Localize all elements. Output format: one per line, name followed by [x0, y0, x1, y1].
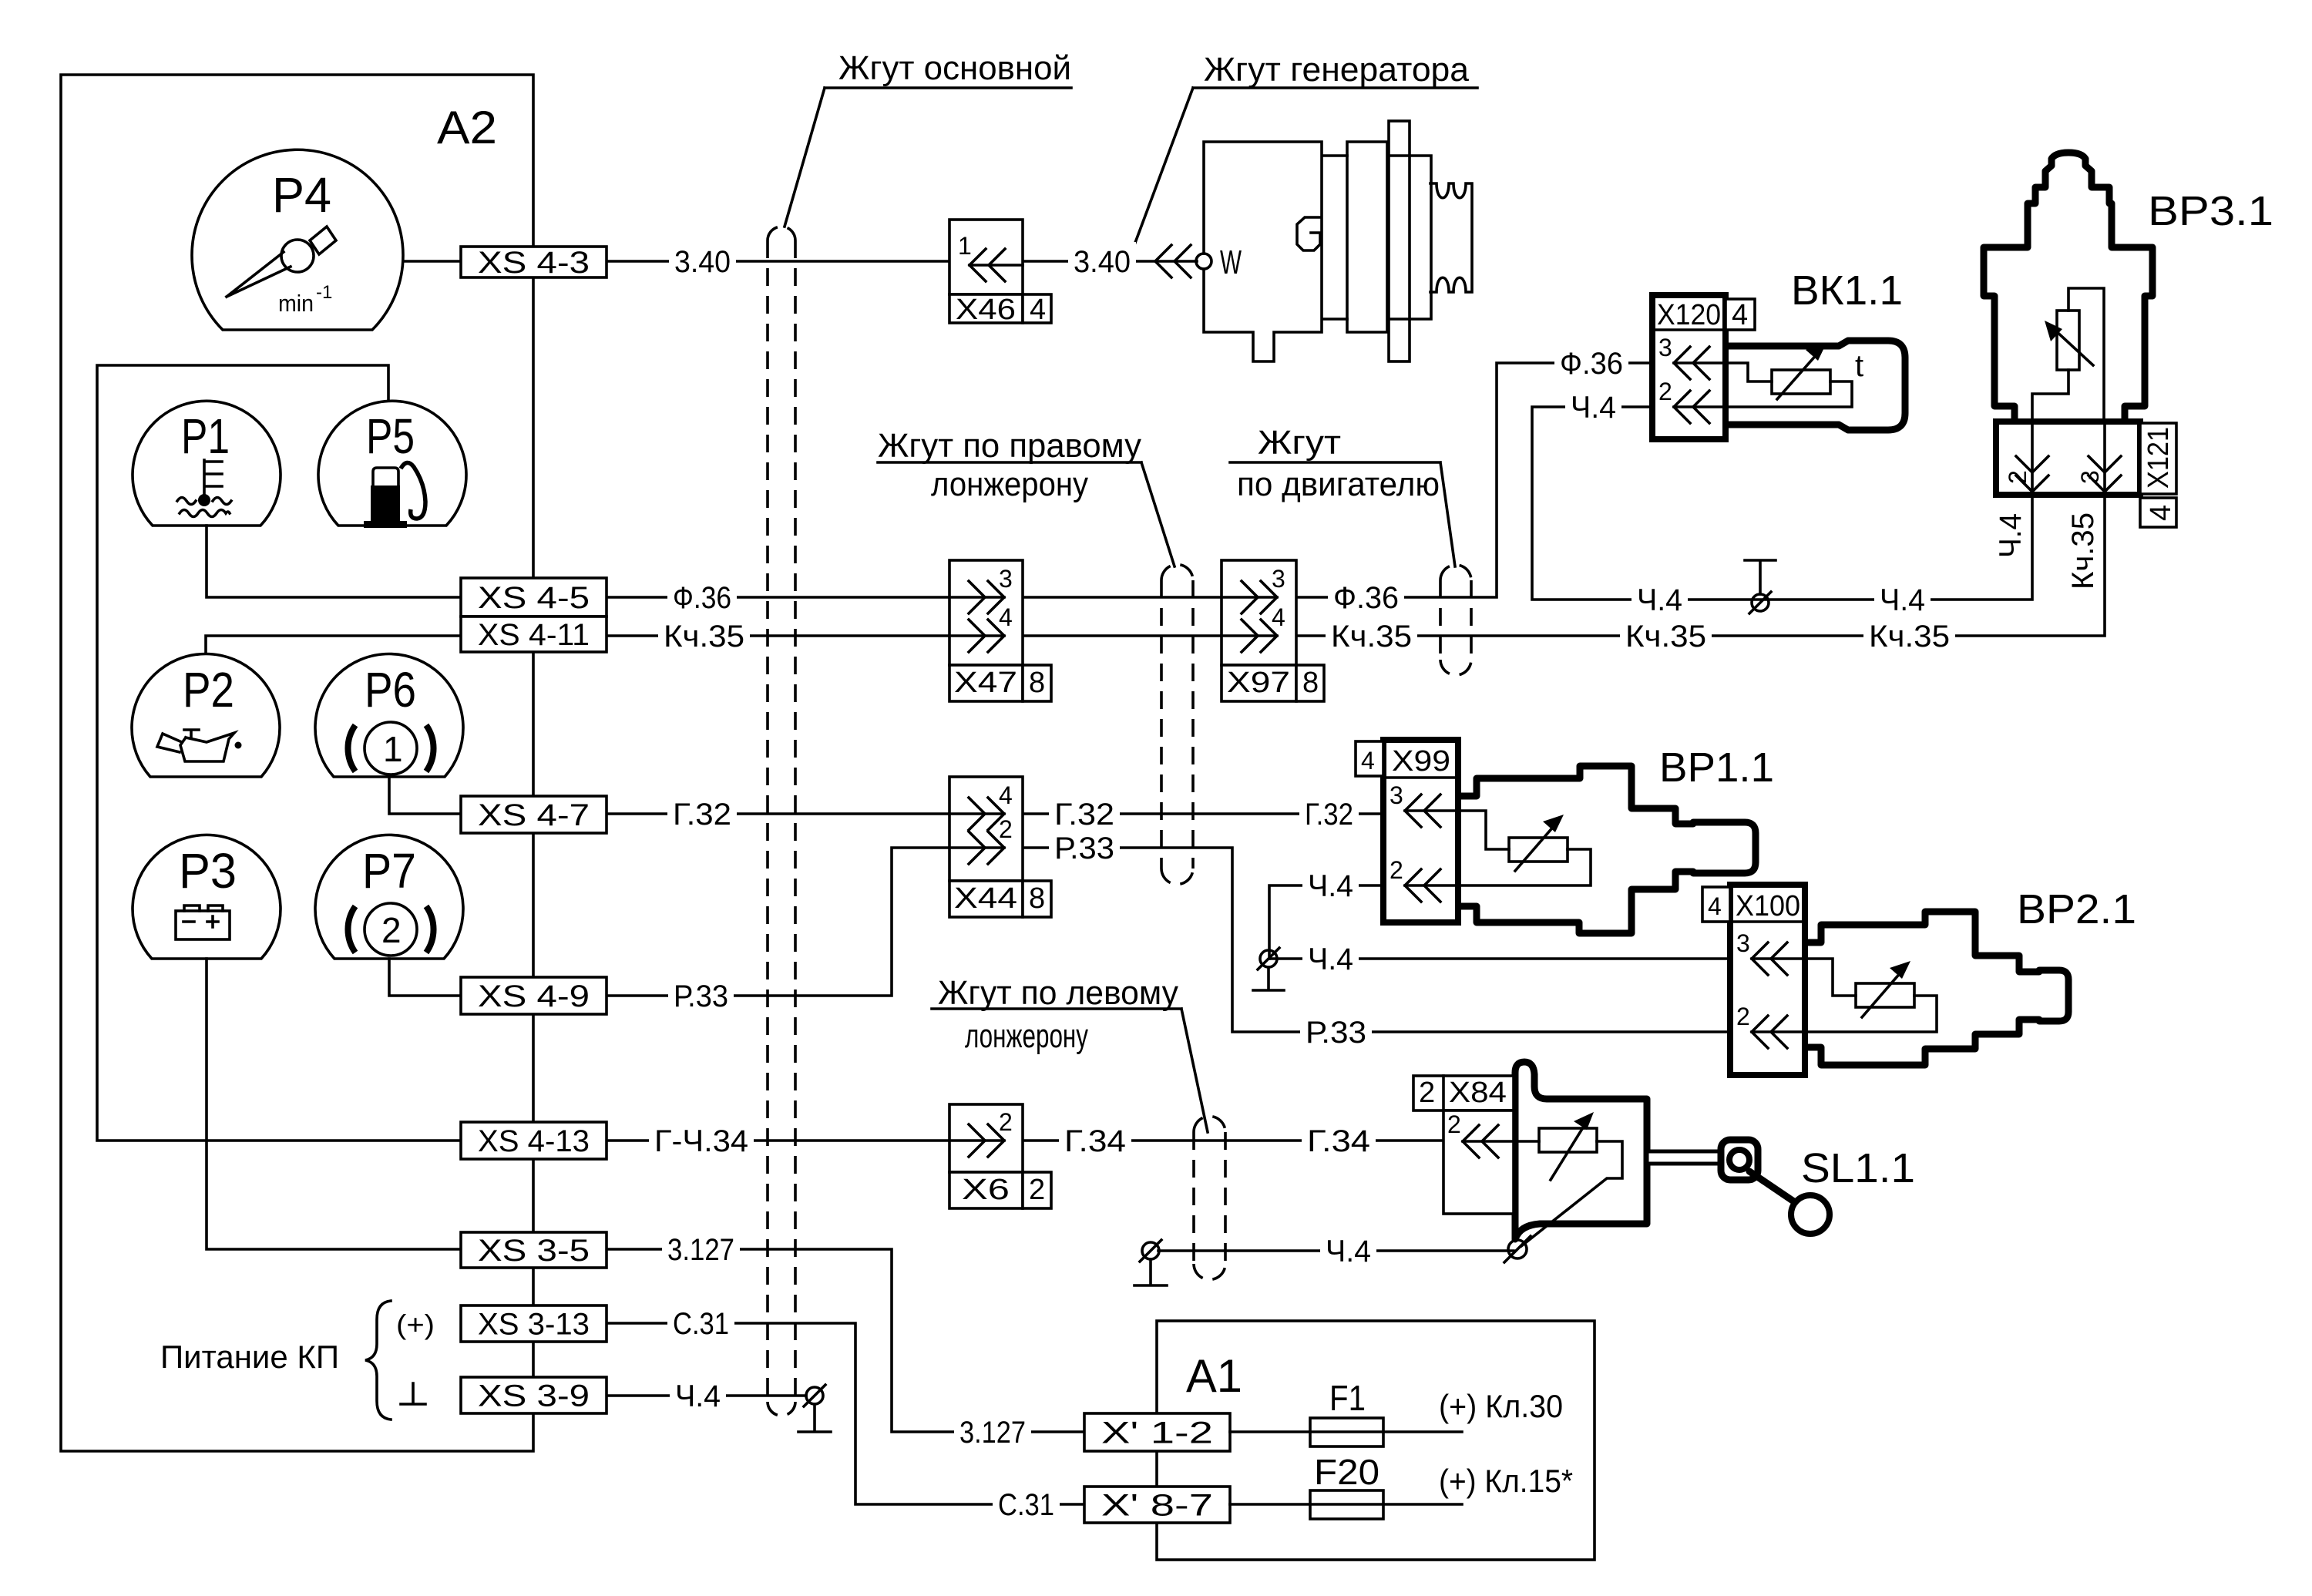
svg-text:Г.34: Г.34	[1307, 1124, 1370, 1158]
svg-text:С.31: С.31	[673, 1307, 729, 1341]
svg-text:(+) Кл.30: (+) Кл.30	[1439, 1388, 1563, 1424]
wire Kch.35 row	[607, 495, 2105, 636]
svg-text:XS 3-5: XS 3-5	[478, 1234, 590, 1268]
svg-text:Жгут: Жгут	[1258, 424, 1341, 462]
ground bolt+earth XS 3-9	[806, 1387, 823, 1404]
wire P7 to XS 4-9	[389, 959, 461, 996]
wire label G.32	[667, 795, 737, 833]
svg-text:2: 2	[999, 815, 1013, 843]
svg-text:Г.32: Г.32	[673, 798, 731, 832]
wire label 3.40 after X46	[1068, 242, 1136, 281]
wire P6 to XS 4-7	[389, 777, 461, 814]
BP3.1 sensor body	[1984, 153, 2152, 422]
svg-text:Кч.35: Кч.35	[2066, 512, 2100, 590]
svg-text:Р7: Р7	[362, 843, 416, 899]
P1 thermometer icon	[204, 460, 222, 496]
wire label Ch.4 to X100	[1302, 939, 1359, 978]
wire label Ch.4 engine right	[1874, 580, 1931, 619]
svg-text:Ф.36: Ф.36	[1333, 581, 1399, 615]
wire label F.36 after X47	[1328, 578, 1404, 617]
svg-text:ВК1.1: ВК1.1	[1791, 267, 1903, 314]
P5 fuel pump icon	[373, 468, 398, 486]
svg-text:4: 4	[1732, 299, 1748, 331]
svg-text:Х' 8-7: Х' 8-7	[1101, 1489, 1213, 1523]
BP1.1 sensor body	[1458, 766, 1756, 933]
wire bus from P5 to XS 4-13	[97, 365, 461, 1141]
connector X6	[949, 1104, 1023, 1172]
BP1.1 internal wiring	[1437, 811, 1591, 885]
gauge P2 oil pressure	[132, 654, 280, 777]
BP3.1 internal wiring	[2032, 288, 2104, 492]
harness capsule main (Zhgut osnovnoy)	[768, 240, 795, 1402]
SL1.1 pivot joint	[1721, 1140, 1758, 1180]
svg-text:3: 3	[1272, 565, 1285, 593]
svg-text:2: 2	[1658, 378, 1672, 405]
wire Ch.4 to X100 pin3	[1269, 957, 1730, 960]
svg-text:XS 4-5: XS 4-5	[478, 581, 590, 615]
svg-text:8: 8	[1302, 667, 1319, 699]
wire label G.32 to BP1.1	[1299, 795, 1359, 833]
connector XS 4-11	[461, 617, 607, 652]
fuse F20	[1310, 1490, 1383, 1519]
wire label R.33	[668, 976, 734, 1015]
connector X120	[1652, 295, 1726, 439]
svg-text:F1: F1	[1329, 1378, 1366, 1418]
svg-text:F20: F20	[1314, 1452, 1379, 1492]
generator bearing block	[1410, 156, 1431, 319]
svg-text:Г.32: Г.32	[1054, 798, 1114, 832]
gauge P6 brake 1	[315, 654, 463, 777]
svg-text:Х84: Х84	[1449, 1077, 1507, 1109]
wire G.32 row	[607, 812, 1383, 815]
svg-text:Жгут по правому: Жгут по правому	[878, 427, 1141, 465]
svg-text:3: 3	[2076, 470, 2104, 484]
wire label F.36 into X120	[1554, 344, 1628, 382]
X84 pin 2	[1463, 1140, 1514, 1143]
P7 brake icon	[365, 903, 417, 956]
generator mounting plate	[1389, 121, 1410, 361]
X46 pin 1	[969, 264, 1023, 267]
svg-text:(+) Кл.15*: (+) Кл.15*	[1439, 1463, 1573, 1499]
svg-text:XS 4-7: XS 4-7	[478, 798, 590, 832]
gauge P5 fuel level	[318, 401, 466, 526]
connector X100	[1730, 885, 1805, 1075]
wire Ch.4 row XS 3-9	[606, 1394, 806, 1397]
svg-text:2: 2	[1029, 1174, 1045, 1206]
ground terminal annotation	[401, 1383, 425, 1404]
wire S.31 row to X8-7	[606, 1323, 1084, 1504]
svg-text:2: 2	[1447, 1110, 1461, 1138]
connector X 8-7	[1084, 1487, 1230, 1523]
svg-text:Р2: Р2	[183, 662, 234, 717]
wire X8-7 to F20	[1230, 1503, 1462, 1506]
svg-text:Кч.35: Кч.35	[1625, 620, 1706, 654]
svg-text:Р1: Р1	[181, 408, 230, 464]
wire X1-2 to F1	[1230, 1430, 1462, 1433]
connector X99	[1383, 740, 1458, 922]
wire label G.34 after X6	[1059, 1121, 1131, 1160]
svg-text:XS 3-9: XS 3-9	[478, 1379, 590, 1413]
svg-text:4: 4	[1361, 747, 1375, 774]
wire label Kch.35 near BP3.1	[1863, 617, 1955, 655]
svg-text:Кч.35: Кч.35	[1331, 620, 1412, 654]
X44 pin 4	[949, 814, 1004, 848]
svg-text:3: 3	[1658, 334, 1672, 361]
X97 pin 3	[1222, 597, 1277, 636]
wire label S.31	[667, 1304, 734, 1342]
BP2.1 sensor body	[1805, 912, 2068, 1065]
connector X121	[1996, 422, 2140, 495]
svg-text:3: 3	[1736, 929, 1750, 957]
svg-text:Ч.4: Ч.4	[1637, 583, 1682, 617]
svg-text:Жгут основной: Жгут основной	[838, 49, 1071, 87]
BK1.1 variable resistor	[1772, 370, 1830, 394]
svg-text:SL1.1: SL1.1	[1801, 1145, 1915, 1191]
svg-text:Ч.4: Ч.4	[1994, 513, 2028, 558]
X44 pin 2	[969, 832, 1004, 864]
generator G body	[1204, 142, 1347, 361]
X47 pin 4	[969, 620, 1004, 652]
wire Ch.4 from BK1.1 to ground and BP3.1	[1532, 407, 2032, 600]
svg-text:ВР2.1: ВР2.1	[2017, 886, 2136, 932]
svg-text:лонжерону: лонжерону	[931, 465, 1088, 503]
wire P1 to XS 4-5	[207, 526, 461, 597]
BP2.1 variable resistor	[1856, 983, 1914, 1007]
connector XS 4-7	[461, 796, 607, 833]
SL1.1 internal wiring	[1500, 1141, 1622, 1246]
generator terminal W	[1196, 254, 1211, 269]
gauge P1 coolant temp	[133, 401, 281, 526]
svg-text:Кч.35: Кч.35	[664, 620, 744, 654]
svg-text:ВР1.1: ВР1.1	[1659, 744, 1774, 791]
wire label G.32 after X44	[1049, 795, 1120, 833]
svg-text:3.40: 3.40	[1074, 245, 1131, 279]
svg-text:W: W	[1220, 244, 1242, 281]
svg-text:Х121: Х121	[2142, 427, 2175, 489]
svg-text:1: 1	[958, 232, 972, 260]
svg-text:Х120: Х120	[1657, 299, 1721, 331]
wire label G.34 to X84	[1302, 1121, 1376, 1160]
svg-text:Ф.36: Ф.36	[1560, 347, 1623, 381]
gauge P3 battery	[133, 835, 281, 959]
connector X47	[949, 560, 1023, 665]
svg-text:Х6: Х6	[962, 1174, 1010, 1206]
connector XS 4-5	[461, 578, 607, 617]
svg-text:Х46: Х46	[956, 294, 1016, 326]
svg-text:Р5: Р5	[366, 408, 415, 464]
svg-text:Р4: Р4	[272, 167, 331, 223]
svg-text:XS 4-13: XS 4-13	[478, 1124, 590, 1158]
svg-text:Р6: Р6	[365, 662, 416, 717]
wire label 3.40	[669, 242, 736, 281]
wire label Ch.4 to BK1.1	[1565, 388, 1621, 426]
connector XS 4-3	[461, 247, 607, 277]
ground bolt on SL1.1 body corner	[1508, 1240, 1527, 1258]
ground bolt+earth left of X100	[1260, 950, 1277, 967]
connector XS 4-9	[461, 977, 607, 1014]
BP2.1 internal wiring	[1783, 959, 1937, 1032]
svg-text:4: 4	[2145, 505, 2177, 521]
ground bolt+earth for SL1.1 wire	[1142, 1242, 1159, 1259]
svg-text:Х' 1-2: Х' 1-2	[1101, 1416, 1213, 1450]
svg-text:-1: -1	[316, 282, 332, 303]
X100 pin 3	[1752, 959, 1805, 1032]
wire R.33 row	[607, 848, 1730, 1032]
wire label R.33 to X100	[1300, 1013, 1372, 1051]
svg-text:4: 4	[1030, 294, 1046, 326]
svg-text:3.127: 3.127	[667, 1233, 734, 1267]
svg-text:3.40: 3.40	[674, 245, 731, 279]
harness capsule left longeron	[1194, 1132, 1225, 1264]
wire label 3.127	[662, 1230, 740, 1268]
connector XS 3-13	[461, 1305, 607, 1342]
svg-text:Ч.4: Ч.4	[1880, 583, 1925, 617]
connector X46	[949, 220, 1023, 294]
harness capsule engine	[1440, 580, 1471, 660]
svg-text:Р.33: Р.33	[1306, 1016, 1366, 1050]
svg-text:Р3: Р3	[179, 843, 237, 899]
wire label Ch.4 engine left	[1632, 580, 1688, 619]
svg-text:2: 2	[1419, 1077, 1435, 1109]
svg-text:8: 8	[1029, 882, 1045, 915]
harness capsule right longeron	[1161, 580, 1193, 869]
ground bolt at Ch.4 BK1.1 (engine)	[1752, 594, 1769, 611]
connector X 1-2	[1084, 1413, 1230, 1451]
connector XS 4-13	[461, 1122, 607, 1159]
svg-text:А2: А2	[437, 102, 497, 153]
fuse box A1	[1157, 1321, 1595, 1560]
wire P4 to XS 4-3	[403, 260, 461, 263]
svg-text:Г.34: Г.34	[1064, 1124, 1126, 1158]
BK1.1 internal wiring	[1726, 363, 1852, 407]
wire Ch.4 SL1.1 ground row	[1158, 1249, 1514, 1252]
P6 brake icon	[365, 722, 417, 774]
wire G-Ch.34 row to X6 and X84	[607, 1139, 1463, 1142]
wire label 3.127 at X1-2	[954, 1413, 1031, 1451]
connector X44	[949, 777, 1023, 881]
svg-text:Р.33: Р.33	[674, 979, 728, 1013]
wire label F.36	[667, 578, 737, 617]
X120 pin 2	[1674, 391, 1709, 423]
svg-text:Г.32: Г.32	[1305, 798, 1353, 832]
svg-text:(+): (+)	[396, 1309, 435, 1340]
X97 pin 4	[1242, 620, 1277, 652]
svg-text:2: 2	[1390, 856, 1403, 884]
svg-text:3: 3	[1390, 781, 1403, 809]
svg-text:t: t	[1855, 349, 1863, 383]
svg-text:Х97: Х97	[1227, 667, 1290, 699]
SL1.1 lever arm	[1647, 1151, 1723, 1164]
svg-text:XS 4-9: XS 4-9	[478, 979, 590, 1013]
svg-text:XS 4-3: XS 4-3	[478, 246, 590, 280]
svg-text:ВР3.1: ВР3.1	[2148, 188, 2273, 234]
svg-text:8: 8	[1029, 667, 1045, 699]
X121 pin 3	[2089, 456, 2121, 492]
wire F.36 row	[607, 363, 1652, 597]
svg-text:Ч.4: Ч.4	[1308, 869, 1353, 903]
svg-text:4: 4	[999, 781, 1013, 809]
X100 pin 2	[1752, 1016, 1787, 1048]
svg-text:Ч.4: Ч.4	[675, 1379, 721, 1413]
SL1.1 variable resistor	[1539, 1128, 1597, 1152]
wire label S.31 at X8-7	[993, 1485, 1060, 1524]
connector XS 3-9	[461, 1377, 607, 1413]
wire label Kch.35	[658, 617, 750, 655]
svg-text:2: 2	[2004, 470, 2031, 484]
wire P3 to XS 3-5	[207, 959, 461, 1249]
generator connector chevron	[1155, 245, 1191, 277]
wire label Ch.4 SL ground	[1320, 1231, 1376, 1270]
svg-text:XS 4-11: XS 4-11	[478, 618, 590, 652]
SL1.1 sensor body	[1515, 1062, 1647, 1239]
svg-text:лонжерону: лонжерону	[965, 1017, 1088, 1055]
X121 pin 2	[2032, 422, 2105, 492]
svg-text:Ч.4: Ч.4	[1571, 391, 1616, 425]
svg-text:2: 2	[999, 1108, 1013, 1136]
instrument cluster A2 box	[61, 75, 533, 1451]
connector X84	[1413, 1076, 1514, 1110]
X47 pin 3	[949, 597, 1004, 636]
svg-text:Жгут по левому: Жгут по левому	[938, 974, 1178, 1012]
BP3.1 variable resistor	[2057, 311, 2079, 370]
svg-text:2: 2	[381, 910, 402, 950]
wire label R.33 after X44	[1049, 828, 1120, 867]
generator letter G	[1297, 217, 1320, 250]
gauge P4 tachometer	[192, 150, 403, 330]
svg-text:Х100: Х100	[1736, 890, 1800, 922]
svg-text:3: 3	[999, 565, 1013, 593]
svg-text:Х47: Х47	[954, 667, 1017, 699]
svg-text:min: min	[278, 290, 314, 317]
connector X97	[1222, 560, 1296, 665]
svg-text:3.127: 3.127	[959, 1416, 1026, 1450]
svg-text:Ч.4: Ч.4	[1326, 1235, 1371, 1268]
X6 pin 2	[949, 1139, 1004, 1142]
P3 battery icon	[176, 911, 230, 939]
svg-text:Х44: Х44	[954, 882, 1017, 915]
connector XS 3-5	[461, 1232, 607, 1268]
X99 pin 3	[1405, 811, 1458, 885]
wire label Kch.35 after X47	[1326, 617, 1417, 655]
wire P2 to XS 4-11	[206, 636, 461, 654]
svg-text:С.31: С.31	[998, 1488, 1054, 1522]
BK1.1 sensor body	[1726, 341, 1905, 430]
svg-text:4: 4	[1708, 892, 1722, 920]
X120 pin 3	[1674, 363, 1726, 407]
svg-text:Ф.36: Ф.36	[673, 581, 731, 615]
X99 pin 2	[1405, 869, 1440, 902]
svg-text:2: 2	[1736, 1003, 1750, 1030]
P4 needle	[227, 252, 291, 297]
wire Ch.4 BP1.1 pin2 row	[1269, 885, 1383, 959]
wire 3.127 row to X1-2	[606, 1249, 1084, 1432]
wire label G-Ch.34	[649, 1121, 754, 1160]
generator pulley	[1430, 183, 1472, 292]
svg-text:XS 3-13: XS 3-13	[478, 1308, 590, 1342]
svg-text:Кч.35: Кч.35	[1869, 620, 1950, 654]
svg-text:Ч.4: Ч.4	[1308, 942, 1353, 976]
gauge P7 brake 2	[315, 835, 463, 959]
svg-text:4: 4	[1272, 603, 1285, 631]
wire label Ch.4 BP1.1 pin2	[1302, 866, 1359, 905]
svg-text:Жгут генератора: Жгут генератора	[1204, 51, 1470, 89]
wire label Kch.35 right run	[1620, 617, 1712, 655]
svg-text:1: 1	[383, 729, 403, 769]
svg-text:Р.33: Р.33	[1054, 832, 1114, 865]
wire label Ch.4	[670, 1376, 726, 1415]
svg-text:4: 4	[999, 603, 1013, 631]
fuse F1	[1310, 1418, 1383, 1446]
SL1.1 float ball	[1791, 1195, 1830, 1234]
svg-text:по двигателю: по двигателю	[1237, 465, 1440, 503]
svg-text:Питание КП: Питание КП	[160, 1339, 339, 1375]
wire 3.40 row	[607, 260, 1197, 263]
BP1.1 variable resistor	[1509, 838, 1568, 862]
SL1.1 link rod	[1749, 1171, 1797, 1204]
svg-text:Г-Ч.34: Г-Ч.34	[654, 1124, 748, 1158]
P2 oil can icon	[180, 730, 234, 761]
svg-text:Х99: Х99	[1392, 745, 1450, 778]
svg-text:А1: А1	[1186, 1350, 1242, 1402]
